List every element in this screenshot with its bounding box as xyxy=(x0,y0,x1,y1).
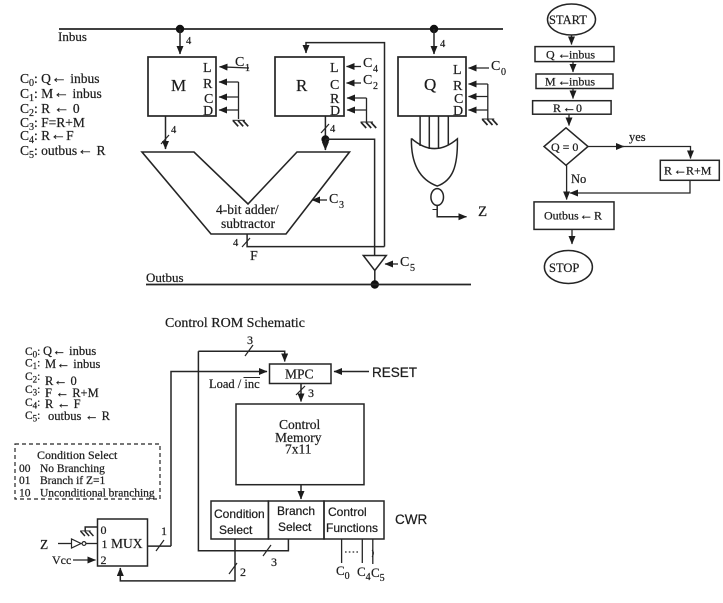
flowchart box Q<-inbus xyxy=(535,47,614,63)
svg-text:←: ← xyxy=(562,101,576,116)
wires control function outputs xyxy=(342,539,374,564)
wire F feedback into R top xyxy=(306,43,385,247)
wire MPC load input from MUX xyxy=(171,372,267,547)
svg-text:R: R xyxy=(203,77,213,92)
microoperation list (bottom left) xyxy=(25,344,111,424)
svg-text:C0: C0 xyxy=(336,563,350,582)
svg-text:Outbus: Outbus xyxy=(544,209,579,223)
flowchart box R<-0 xyxy=(533,101,612,116)
svg-text:outbus ← R: outbus ← R xyxy=(48,409,111,424)
flowchart arrow box2 to box3 xyxy=(572,89,574,99)
svg-text:C2:: C2: xyxy=(25,371,40,385)
svg-text:Control: Control xyxy=(328,505,367,519)
svg-text:Condition: Condition xyxy=(214,507,265,521)
svg-text:C: C xyxy=(363,73,372,88)
bus Outbus xyxy=(146,270,471,285)
svg-text:C3:: C3: xyxy=(25,384,40,398)
ground symbol at MUX input 0 xyxy=(80,527,97,536)
svg-text:Condition Select: Condition Select xyxy=(37,448,118,462)
svg-text:C5:: C5: xyxy=(25,410,40,424)
svg-text:4: 4 xyxy=(330,124,336,135)
svg-text:M: M xyxy=(545,75,556,89)
flowchart arrow box1 to box2 xyxy=(572,62,574,72)
ground (R) xyxy=(361,122,377,128)
svg-text:M← inbus: M← inbus xyxy=(45,357,100,372)
svg-text:C: C xyxy=(235,55,244,70)
microoperation list (top left) xyxy=(20,70,106,162)
wire Control Memory output to CWR xyxy=(300,485,302,499)
svg-text:Outbus: Outbus xyxy=(146,270,184,285)
labels C0 C4 C5 xyxy=(336,563,385,584)
wire M pins R,C,D to ground xyxy=(219,82,239,119)
svg-text:Functions: Functions xyxy=(326,521,378,535)
register CWR: Control Functions field xyxy=(324,501,384,539)
svg-text:3: 3 xyxy=(247,333,253,347)
svg-text:←: ← xyxy=(673,164,687,179)
svg-text:D: D xyxy=(203,104,213,119)
nor gate (4-input, pointing down) xyxy=(411,138,457,205)
svg-text:Q: Q xyxy=(546,48,555,62)
svg-text:L: L xyxy=(330,61,339,76)
svg-text:C4:: C4: xyxy=(25,397,40,411)
svg-text:3: 3 xyxy=(271,555,277,569)
svg-text:MUX: MUX xyxy=(111,536,143,551)
svg-text:Q = 0: Q = 0 xyxy=(551,140,578,154)
svg-text:Select: Select xyxy=(278,520,312,534)
flowchart wire yes path to R<-R+M xyxy=(588,147,691,159)
svg-text:4: 4 xyxy=(186,36,192,47)
svg-text:MPC: MPC xyxy=(285,367,314,382)
svg-text:yes: yes xyxy=(629,130,646,144)
svg-text:4: 4 xyxy=(440,39,446,50)
svg-text:←: ← xyxy=(579,209,593,224)
svg-text:No: No xyxy=(571,172,586,186)
svg-text:START: START xyxy=(549,13,587,27)
svg-text:L: L xyxy=(203,61,212,76)
wire MUX output (1) xyxy=(148,524,172,551)
wire MPC output (3) to Control Memory xyxy=(296,384,314,402)
memory Control Memory 7x11 xyxy=(236,404,364,485)
svg-text:Vcc: Vcc xyxy=(52,553,71,567)
tri-state buffer C5 xyxy=(363,256,386,285)
svg-text:0: 0 xyxy=(501,67,506,78)
svg-text:Q: Q xyxy=(424,75,436,94)
wire branch select return (3) up to MPC xyxy=(198,351,288,569)
control input C2 xyxy=(347,73,379,92)
svg-text:2: 2 xyxy=(240,565,246,579)
label Load / inc xyxy=(209,377,260,391)
svg-text:3: 3 xyxy=(308,386,314,400)
flowchart wire No path to Outbus box xyxy=(566,165,568,199)
svg-text:R: R xyxy=(664,164,672,178)
svg-text:inbus: inbus xyxy=(569,75,595,89)
svg-text:RESET: RESET xyxy=(372,365,417,380)
flowchart box Outbus<-R xyxy=(534,202,614,230)
svg-text:C1:: C1: xyxy=(25,358,40,372)
svg-text:CWR: CWR xyxy=(395,512,427,527)
svg-text:C5: C5 xyxy=(371,565,385,584)
svg-text:Z: Z xyxy=(478,204,487,220)
svg-text:1: 1 xyxy=(245,63,250,74)
svg-text:4: 4 xyxy=(233,238,239,249)
flowchart terminal START xyxy=(548,4,596,35)
svg-text:C: C xyxy=(491,59,500,74)
wire Inbus to register Q (4) xyxy=(434,29,446,54)
register CWR: Branch Select field xyxy=(268,501,324,539)
svg-text:C: C xyxy=(329,192,338,207)
svg-text:4-bit adder/: 4-bit adder/ xyxy=(216,202,279,217)
svg-text:R: R xyxy=(296,76,308,95)
svg-text:L: L xyxy=(453,63,462,78)
flowchart box R<-R+M xyxy=(660,160,719,180)
legend box Condition Select (dashed) xyxy=(15,444,160,500)
svg-text:D: D xyxy=(453,104,463,119)
svg-text:00No Branching: 00No Branching xyxy=(19,463,105,475)
control input C3 xyxy=(312,192,344,211)
svg-text:Branch: Branch xyxy=(277,504,315,518)
input Z with buffer symbol xyxy=(40,537,98,552)
ground (Q) xyxy=(482,119,498,125)
ground (M) xyxy=(233,120,249,126)
register Q xyxy=(398,57,466,119)
flowchart box M<-inbus xyxy=(536,74,613,90)
svg-text:subtractor: subtractor xyxy=(221,216,275,231)
svg-text:C: C xyxy=(363,56,372,71)
bus Inbus xyxy=(58,29,503,44)
svg-text:10Unconditional branching: 10Unconditional branching xyxy=(19,488,155,500)
register MPC xyxy=(270,364,332,384)
svg-text:C: C xyxy=(400,255,409,270)
wire R output to adder (4) with junction xyxy=(321,116,336,150)
svg-text:M: M xyxy=(171,76,186,95)
svg-text:01Branch if Z=1: 01Branch if Z=1 xyxy=(19,475,105,487)
svg-text:Z: Z xyxy=(40,537,48,552)
svg-text:STOP: STOP xyxy=(549,261,579,275)
control input C1 xyxy=(220,55,251,74)
svg-text:C4: C4 xyxy=(357,564,371,583)
flowchart wire return from R<-R+M xyxy=(570,180,690,193)
svg-text:0: 0 xyxy=(101,523,107,537)
wire condition select (2) to MUX select xyxy=(120,539,246,581)
svg-text:2: 2 xyxy=(373,81,378,92)
svg-text:0: 0 xyxy=(576,101,582,115)
svg-text:Select: Select xyxy=(219,523,253,537)
flowchart arrow to STOP xyxy=(571,230,573,245)
svg-text:C: C xyxy=(330,78,339,93)
svg-text:R: R xyxy=(553,101,561,115)
wire branch address (3) into MPC top xyxy=(198,333,284,362)
svg-text:D: D xyxy=(330,104,340,119)
svg-text:1: 1 xyxy=(102,537,108,551)
svg-text:7x11: 7x11 xyxy=(285,442,312,457)
svg-text:3: 3 xyxy=(339,200,344,211)
adder U1 (4-bit adder/subtractor) xyxy=(142,152,350,234)
wire Inbus to register M (4) xyxy=(180,29,192,54)
svg-text:Inbus: Inbus xyxy=(58,29,87,44)
svg-text:4: 4 xyxy=(171,125,177,136)
junction on Inbus at M tap xyxy=(176,25,184,33)
svg-text:2: 2 xyxy=(101,553,107,567)
flowchart arrow box3 to decision xyxy=(568,114,570,125)
svg-text:F: F xyxy=(250,249,258,264)
svg-text:Load / inc: Load / inc xyxy=(209,377,260,391)
flowchart decision Q=0 xyxy=(544,128,588,166)
wire F output of adder (4) xyxy=(233,234,385,264)
control input C0 xyxy=(469,59,507,78)
register CWR: Condition Select field xyxy=(211,501,268,539)
svg-text:5: 5 xyxy=(410,263,415,274)
input Vcc xyxy=(52,553,96,567)
wire RESET into MPC xyxy=(334,365,417,380)
control input C4 xyxy=(347,56,379,75)
svg-text:4: 4 xyxy=(373,64,378,75)
control input C5 xyxy=(385,255,415,274)
svg-text:Control ROM Schematic: Control ROM Schematic xyxy=(165,316,305,331)
register M xyxy=(148,57,216,119)
wire M output to adder (4) xyxy=(161,116,177,149)
wire R output junction to tri-state xyxy=(325,139,374,255)
flowchart terminal STOP xyxy=(544,251,592,284)
wire Q pins R,C,D to ground xyxy=(469,84,488,119)
svg-text:1: 1 xyxy=(161,524,167,538)
wire R pins R,D to ground xyxy=(347,98,367,122)
wires Q outputs into NOR gate xyxy=(420,116,448,149)
svg-text:R+M: R+M xyxy=(686,164,712,178)
register R xyxy=(275,57,344,119)
svg-text:inbus: inbus xyxy=(569,48,595,62)
svg-text:R: R xyxy=(594,209,602,223)
junction on Inbus at Q tap xyxy=(430,25,438,33)
flowchart arrow START to box1 xyxy=(571,35,573,45)
mux MUX xyxy=(98,519,148,567)
junction on Outbus xyxy=(371,280,379,288)
wire Z output of nor gate xyxy=(433,204,488,220)
